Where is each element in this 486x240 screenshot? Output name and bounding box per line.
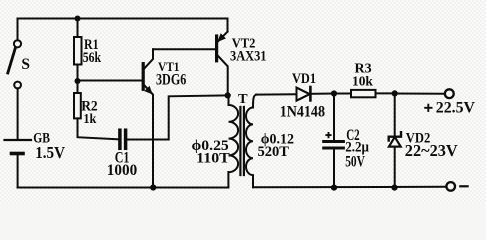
- wire R1 to node B: [77, 65, 79, 94]
- capacitor C1: [118, 130, 122, 148]
- svg-text:56k: 56k: [83, 50, 102, 66]
- wire battery to bottom rail: [17, 154, 19, 188]
- junction node VD2 ground: [391, 185, 397, 191]
- transformer T primary winding: [229, 95, 239, 172]
- svg-text:VD1: VD1: [292, 71, 316, 87]
- battery GB: [5, 139, 32, 141]
- wire top rail: [18, 19, 228, 41]
- switch S: [14, 40, 21, 47]
- svg-text:110T: 110T: [196, 150, 230, 166]
- wire C2 branch: [333, 94, 335, 141]
- svg-text:S: S: [21, 56, 30, 73]
- label plus sign of output: [424, 107, 432, 109]
- wire C1 feedback to transformer node: [127, 95, 228, 139]
- terminal - output: [446, 182, 455, 191]
- junction node VD1/R3/C2: [331, 90, 337, 96]
- transistor VT2: [215, 36, 218, 61]
- wire switch to battery: [17, 88, 19, 139]
- wire left bottom rail: [18, 172, 229, 188]
- junction node top rail / R1: [75, 16, 81, 22]
- arrow emitter VT2: [217, 33, 226, 42]
- svg-text:22.5V: 22.5V: [436, 100, 476, 117]
- transistor VT1: [142, 64, 145, 90]
- svg-text:1k: 1k: [83, 112, 96, 127]
- label plus sign of C2: [325, 134, 331, 136]
- wire to + terminal: [395, 93, 445, 95]
- wire R3 to VD2 node: [376, 92, 395, 94]
- svg-text:1N4148: 1N4148: [280, 103, 326, 120]
- svg-text:520T: 520T: [258, 144, 290, 160]
- svg-text:1000: 1000: [107, 162, 137, 179]
- transformer T secondary winding: [246, 95, 257, 188]
- svg-text:3DG6: 3DG6: [156, 71, 186, 88]
- junction node C2 ground: [331, 185, 337, 191]
- svg-text:50V: 50V: [345, 153, 365, 170]
- zener diode VD2: [389, 132, 401, 140]
- wire secondary to VD1: [256, 93, 297, 95]
- junction node emitter VT1 ground: [150, 184, 156, 190]
- svg-text:3AX31: 3AX31: [230, 48, 267, 64]
- arrow emitter VT1: [144, 86, 153, 95]
- wire VT1 collector to VT2 base: [153, 48, 215, 50]
- wire VD2 branch: [394, 93, 396, 187]
- resistor R1: [74, 37, 82, 65]
- resistor R3: [351, 90, 376, 97]
- transformer core: [239, 107, 241, 175]
- junction node R3/VD2: [392, 90, 398, 96]
- svg-text:22~23V: 22~23V: [405, 141, 458, 160]
- wire right bottom rail: [253, 186, 446, 189]
- wire base of VT1: [78, 80, 142, 82]
- capacitor C2: [324, 140, 344, 143]
- resistor R2: [74, 93, 81, 118]
- minus sign: [460, 185, 467, 187]
- wire VD1 to R3 node: [297, 93, 335, 96]
- junction node transformer primary top: [225, 92, 231, 98]
- svg-text:T: T: [238, 92, 248, 107]
- wire R2 to C1: [78, 118, 119, 139]
- junction node R1/R2/base: [75, 78, 81, 84]
- diode VD1: [297, 88, 310, 101]
- svg-text:10k: 10k: [352, 75, 373, 90]
- wire output line with R3: [334, 93, 351, 95]
- svg-text:1.5V: 1.5V: [35, 143, 65, 162]
- wire R1 branch from top rail: [77, 19, 79, 38]
- terminal + output: [445, 89, 454, 98]
